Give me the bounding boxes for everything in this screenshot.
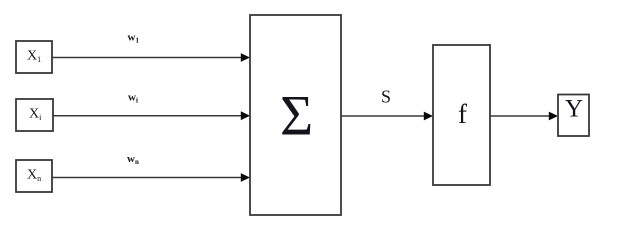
svg-text:Σ: Σ	[280, 85, 313, 148]
arrowhead wire S	[424, 112, 433, 121]
input box Xn	[16, 160, 52, 192]
svg-text:S: S	[381, 87, 391, 107]
svg-text:Y: Y	[565, 96, 583, 123]
svg-text:wi: wi	[128, 91, 138, 104]
input box X1	[16, 41, 52, 73]
arrowhead output wire	[549, 112, 558, 121]
summation box U1	[250, 15, 341, 215]
arrowhead wire 1	[241, 53, 250, 62]
input box Xi	[16, 99, 53, 131]
svg-text:wn: wn	[127, 153, 139, 166]
activation box f	[433, 45, 490, 185]
wire Xn to summation	[52, 177, 242, 179]
output box Y	[558, 95, 589, 137]
arrowhead wire 3	[241, 173, 250, 182]
wire Xi to summation	[53, 115, 242, 117]
wire summation to f	[341, 115, 425, 117]
wire f to output Y	[490, 115, 550, 117]
svg-text:w1: w1	[128, 32, 140, 45]
wire X1 to summation	[52, 57, 242, 59]
arrowhead wire 2	[241, 111, 250, 120]
svg-text:f: f	[458, 99, 467, 129]
